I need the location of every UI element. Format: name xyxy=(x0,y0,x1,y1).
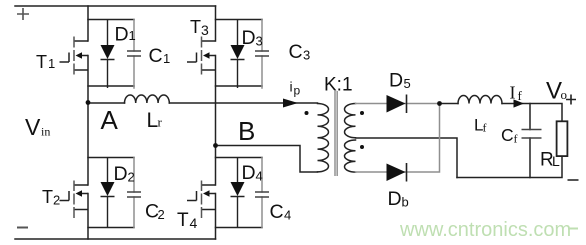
svg-text:C: C xyxy=(289,41,303,63)
svg-text:4: 4 xyxy=(284,208,291,223)
svg-text:www.cntronics.com: www.cntronics.com xyxy=(399,219,571,241)
svg-text:D: D xyxy=(242,162,256,184)
svg-text:T: T xyxy=(177,210,189,231)
svg-text:D: D xyxy=(389,70,403,92)
svg-text:T: T xyxy=(36,52,47,72)
svg-text:4: 4 xyxy=(256,169,263,184)
svg-text:i: i xyxy=(290,79,293,95)
svg-text:3: 3 xyxy=(256,34,263,49)
svg-text:5: 5 xyxy=(404,76,411,91)
svg-text:I: I xyxy=(510,83,516,103)
svg-text:f: f xyxy=(518,88,523,103)
svg-text:p: p xyxy=(294,84,301,98)
svg-text:1: 1 xyxy=(163,51,170,66)
svg-text:C: C xyxy=(149,45,163,67)
svg-text:T: T xyxy=(190,17,201,37)
svg-text:L: L xyxy=(147,109,159,132)
svg-text:D: D xyxy=(242,27,256,49)
svg-text:V: V xyxy=(25,114,41,140)
svg-text:2: 2 xyxy=(53,193,60,208)
svg-text:2: 2 xyxy=(128,170,135,185)
svg-text:b: b xyxy=(402,195,409,210)
svg-text:1: 1 xyxy=(48,56,55,71)
svg-text:D: D xyxy=(115,24,129,46)
svg-text:3: 3 xyxy=(201,22,209,38)
svg-text:K:1: K:1 xyxy=(324,75,353,96)
svg-text:4: 4 xyxy=(190,215,198,231)
svg-text:in: in xyxy=(41,125,50,139)
svg-text:D: D xyxy=(388,188,402,210)
svg-text:3: 3 xyxy=(303,48,310,63)
svg-text:D: D xyxy=(114,163,128,185)
svg-text:L: L xyxy=(552,153,560,169)
svg-text:f: f xyxy=(514,132,518,146)
svg-text:C: C xyxy=(270,201,284,223)
svg-text:o: o xyxy=(561,87,568,102)
svg-text:A: A xyxy=(101,105,119,135)
svg-text:C: C xyxy=(501,125,514,145)
svg-text:B: B xyxy=(238,116,255,146)
svg-text:1: 1 xyxy=(129,28,136,43)
svg-text:r: r xyxy=(158,115,163,130)
svg-text:T: T xyxy=(42,187,53,207)
svg-text:2: 2 xyxy=(158,207,165,222)
svg-text:f: f xyxy=(483,121,487,135)
